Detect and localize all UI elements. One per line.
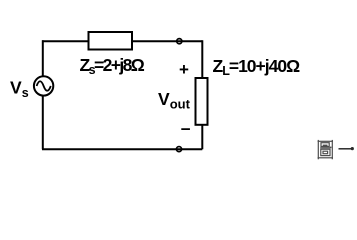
AC source Vs: [34, 76, 53, 95]
node top: [177, 39, 182, 44]
leader line: [339, 148, 352, 150]
node bottom: [176, 147, 181, 152]
svg-text:ZL=10+j40Ω: ZL=10+j40Ω: [213, 56, 301, 78]
wire top: [42, 40, 202, 42]
svg-text:–: –: [181, 118, 191, 138]
impedance Zs box: [89, 32, 133, 50]
svg-text:Vout: Vout: [158, 89, 191, 111]
leader dot: [351, 147, 354, 150]
svg-text:Zs=2+j8Ω: Zs=2+j8Ω: [80, 55, 145, 77]
wire bottom: [42, 148, 202, 150]
svg-text:+: +: [179, 60, 189, 79]
wire left: [42, 40, 44, 149]
svg-text:Vs: Vs: [10, 77, 29, 100]
impedance ZL box: [196, 78, 208, 125]
figure glyph (CJK char drawn as strokes): [318, 140, 333, 159]
wire right: [201, 40, 203, 149]
